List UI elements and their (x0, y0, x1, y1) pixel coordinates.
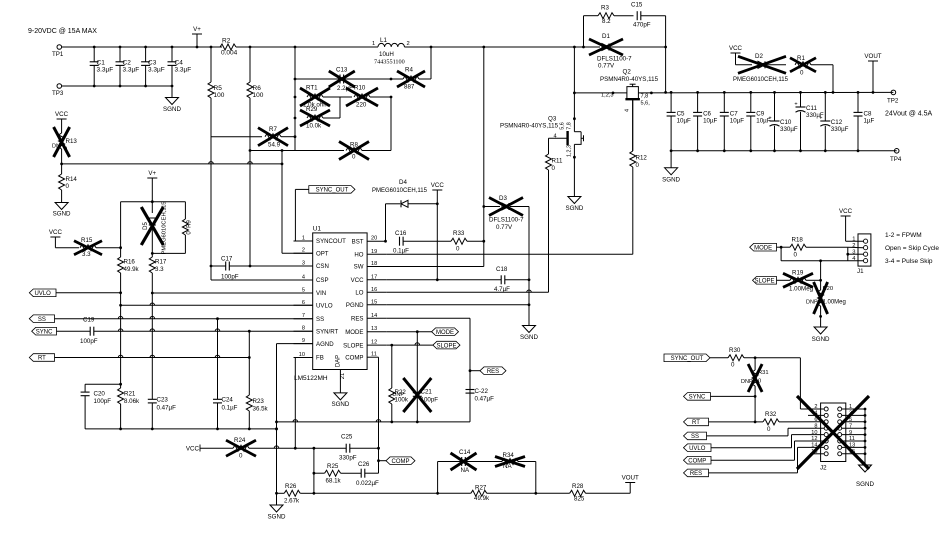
transistor Q2 PSMN4R0-40YS,115 (627, 87, 639, 100)
svg-text:49.9k: 49.9k (474, 495, 490, 502)
svg-text:1µF: 1µF (864, 118, 875, 125)
svg-text:C11: C11 (806, 105, 817, 112)
capacitor C6 (697, 92, 699, 112)
net tag SYNC_OUT at pin1 (294, 189, 296, 241)
wire OPT strap row (62, 163, 282, 165)
wire LO row to Q3 gate (386, 291, 548, 293)
ground J2 (859, 465, 872, 472)
test point TP4 (894, 149, 899, 154)
resistor R16 (120, 202, 122, 257)
wire PGND row (386, 304, 529, 306)
wire RES net (386, 317, 470, 319)
ground below R14 (55, 203, 68, 210)
svg-text:+: + (768, 116, 771, 122)
diode D1 (DNP) (602, 44, 609, 51)
capacitor C12 (824, 92, 826, 120)
svg-text:R2: R2 (222, 38, 231, 45)
svg-text:SYNC: SYNC (36, 329, 53, 335)
svg-text:R28: R28 (572, 483, 584, 490)
test point TP1 (57, 45, 62, 50)
svg-text:SGND: SGND (662, 177, 680, 184)
svg-text:C7: C7 (730, 111, 738, 118)
net tag RT left (29, 354, 54, 362)
net tag SYNC_OUT bottom (664, 354, 710, 362)
svg-text:R24: R24 (234, 437, 246, 444)
svg-text:0: 0 (66, 183, 70, 190)
svg-text:C2: C2 (123, 60, 132, 67)
ground output (670, 151, 672, 168)
resistor R6 (249, 47, 251, 82)
svg-text:C20: C20 (94, 391, 106, 398)
diode D2 (DNP) (758, 61, 765, 68)
svg-text:9-20VDC @ 15A MAX: 9-20VDC @ 15A MAX (28, 28, 97, 35)
svg-text:SLOPE: SLOPE (754, 279, 774, 285)
svg-text:2: 2 (852, 243, 855, 249)
svg-text:D5: D5 (143, 222, 149, 230)
wire J2 pin 13 to ground (842, 446, 865, 448)
svg-text:12: 12 (371, 340, 377, 346)
svg-text:4: 4 (625, 109, 631, 112)
resistor R27 (471, 490, 487, 496)
wire SW riser (483, 47, 485, 267)
svg-text:SYNC_OUT: SYNC_OUT (671, 356, 704, 362)
resistor R5 (210, 47, 212, 82)
diode D5 (DNP) (151, 202, 153, 213)
ground below C4 (171, 86, 173, 98)
svg-text:0.47µF: 0.47µF (475, 396, 495, 403)
svg-text:13: 13 (371, 326, 377, 332)
wire J2 ground column (864, 409, 866, 465)
net tag UVLO left (29, 289, 56, 297)
svg-text:1: 1 (372, 41, 375, 47)
svg-text:0.1µF: 0.1µF (393, 248, 409, 255)
resistor R24 (DNP) (200, 447, 233, 449)
svg-text:R29: R29 (306, 106, 318, 113)
wire J2 pin 3 to ground (842, 414, 865, 416)
svg-text:RT: RT (38, 356, 46, 362)
wire rail R2 to L1 (236, 46, 378, 48)
wire J2 pin4 stub (808, 414, 824, 416)
svg-text:C17: C17 (221, 256, 233, 263)
svg-text:3.3µF: 3.3µF (148, 67, 165, 74)
svg-text:100pF: 100pF (80, 338, 98, 345)
svg-text:17: 17 (371, 274, 377, 280)
wire VCC column (436, 190, 438, 280)
resistor R33 (451, 238, 467, 244)
resistor RT1 (DNP) (307, 94, 323, 100)
capacitor C15 snubber (636, 11, 638, 20)
svg-text:R3: R3 (601, 5, 609, 12)
net tag MODE (432, 328, 459, 336)
svg-text:C16: C16 (395, 230, 407, 237)
wire J2 pin 1 to ground (842, 408, 865, 410)
svg-text:C6: C6 (703, 111, 711, 118)
svg-text:C1: C1 (97, 60, 106, 67)
svg-text:CSP: CSP (316, 277, 329, 284)
svg-text:C9: C9 (756, 111, 764, 118)
wire Q2 to output rail (638, 91, 893, 94)
svg-text:SGND: SGND (856, 481, 874, 488)
svg-text:MODE: MODE (754, 245, 772, 251)
wire UVLO tag to divider (56, 292, 121, 294)
svg-text:SYN/RT: SYN/RT (316, 328, 339, 335)
svg-text:R13: R13 (66, 138, 78, 145)
svg-text:MODE: MODE (436, 330, 454, 336)
ground Q3 source (568, 197, 581, 204)
svg-text:C5: C5 (677, 111, 685, 118)
svg-text:SGND: SGND (812, 336, 830, 343)
svg-text:2.67k: 2.67k (284, 498, 300, 505)
svg-text:R19: R19 (792, 270, 804, 277)
capacitor C2 (119, 47, 121, 62)
ground U1 DAP (334, 393, 347, 400)
svg-text:3.3: 3.3 (155, 266, 164, 273)
svg-text:C24: C24 (222, 397, 234, 404)
svg-text:V+: V+ (193, 26, 201, 33)
svg-text:C25: C25 (341, 434, 353, 441)
svg-text:PSMN4R0-40YS,115: PSMN4R0-40YS,115 (500, 123, 559, 130)
svg-text:NA: NA (461, 467, 470, 474)
resistor R21 (118, 388, 124, 404)
resistor R29 (DNP) (307, 115, 323, 121)
svg-text:SW: SW (354, 264, 364, 271)
svg-text:C15: C15 (631, 2, 643, 9)
svg-text:0.77V: 0.77V (598, 62, 615, 69)
svg-text:R18: R18 (792, 237, 804, 244)
svg-text:+: + (819, 116, 822, 122)
svg-text:PSMN4R0-40YS,115: PSMN4R0-40YS,115 (600, 76, 659, 83)
svg-text:1: 1 (852, 237, 855, 243)
svg-text:10µF: 10µF (730, 118, 744, 125)
svg-text:V+: V+ (148, 170, 156, 177)
svg-text:TP3: TP3 (52, 90, 64, 97)
svg-text:AGND: AGND (316, 341, 334, 348)
pin 17 VCC (367, 279, 386, 281)
svg-text:R34: R34 (503, 452, 515, 459)
wire SW row (367, 266, 484, 268)
svg-text:15: 15 (371, 299, 377, 305)
DNP cross over J2 (797, 396, 869, 469)
svg-text:5,6: 5,6 (560, 122, 566, 130)
capacitor C16 bootstrap (399, 237, 401, 246)
svg-text:L1: L1 (380, 37, 387, 44)
svg-text:Q3: Q3 (548, 116, 557, 123)
wire sense column x295 (294, 47, 296, 151)
wire AGND pin to rail (277, 343, 313, 345)
wire D5 R9 bottom (152, 252, 185, 254)
wire MODE row (416, 330, 419, 333)
svg-text:D1: D1 (602, 33, 610, 40)
wire J1 pin3 stub (848, 253, 864, 255)
resistor R13 (DNP) (59, 133, 65, 149)
svg-text:D2: D2 (755, 53, 763, 60)
svg-text:SLOPE: SLOPE (343, 342, 363, 349)
svg-text:UVLO: UVLO (689, 446, 706, 452)
svg-text:100: 100 (214, 92, 225, 99)
svg-text:COMP: COMP (345, 354, 363, 361)
wire COMP to J2 pin12 (711, 459, 795, 461)
svg-text:TP2: TP2 (887, 98, 899, 105)
pin 2 OPT (294, 252, 313, 254)
svg-text:J1: J1 (857, 268, 864, 275)
net tag RT bottom (684, 418, 709, 426)
svg-text:SS: SS (38, 317, 46, 323)
svg-text:330pF: 330pF (339, 455, 357, 462)
svg-text:CSN: CSN (316, 263, 329, 270)
svg-text:NA: NA (503, 463, 512, 470)
svg-text:R17: R17 (155, 259, 167, 266)
svg-text:J2: J2 (820, 465, 827, 472)
resistor R25 (314, 472, 325, 474)
test point TP2 (891, 90, 896, 95)
svg-text:0: 0 (731, 362, 735, 369)
svg-text:RES: RES (487, 369, 499, 375)
svg-text:RT1: RT1 (306, 85, 318, 92)
svg-text:R14: R14 (66, 176, 78, 183)
resistor R28 (570, 490, 586, 496)
net tag MODE right (750, 243, 777, 251)
svg-text:0: 0 (552, 165, 556, 172)
svg-text:7443551100: 7443551100 (374, 59, 405, 66)
capacitor C18 (500, 275, 502, 284)
svg-text:1.00Meg: 1.00Meg (789, 286, 814, 293)
pin 3 CSN (294, 265, 313, 267)
svg-text:C14: C14 (459, 449, 471, 456)
capacitor C3 (145, 47, 147, 62)
capacitor C13 (DNP) (295, 78, 340, 80)
svg-text:100pF: 100pF (421, 397, 439, 404)
svg-text:Q2: Q2 (623, 69, 632, 76)
svg-text:0.1µF: 0.1µF (222, 405, 238, 412)
node R13 R14 (60, 163, 63, 166)
svg-text:C13: C13 (336, 67, 348, 74)
svg-text:3.3µF: 3.3µF (175, 67, 192, 74)
svg-text:R26: R26 (285, 483, 297, 490)
wire FB branch column (313, 448, 315, 493)
svg-text:SS: SS (691, 434, 699, 440)
capacitor C9 (750, 92, 752, 112)
svg-text:HO: HO (354, 252, 363, 259)
wire UVLO to J2 pin10 (711, 447, 792, 449)
wire OPT column (281, 151, 283, 254)
svg-text:0: 0 (636, 162, 640, 169)
svg-text:U1: U1 (313, 226, 322, 233)
svg-text:R4: R4 (405, 67, 413, 74)
svg-text:0: 0 (239, 453, 243, 460)
svg-text:330µF: 330µF (831, 126, 849, 133)
svg-text:10uH: 10uH (379, 51, 394, 58)
svg-text:PMEG6010CEH,115: PMEG6010CEH,115 (162, 201, 168, 254)
net tag UVLO bottom (684, 444, 712, 452)
resistor R32 (763, 419, 779, 425)
wire RT1 to R29 (339, 97, 341, 118)
svg-text:COMP: COMP (688, 458, 706, 464)
svg-text:2: 2 (814, 404, 817, 410)
wire SW to Q2 (574, 92, 627, 94)
svg-text:SGND: SGND (331, 401, 349, 408)
ground J1 area (814, 327, 827, 334)
node SW column (573, 46, 576, 49)
wire J2 pin 5 to ground (842, 421, 865, 423)
pin 8 SYN/RT (294, 330, 313, 332)
resistor R9 (184, 202, 186, 219)
svg-text:C4: C4 (175, 60, 184, 67)
svg-text:BST: BST (352, 238, 364, 245)
svg-text:SYNC_OUT: SYNC_OUT (316, 188, 349, 194)
wire SLOPE row (390, 344, 393, 347)
resistor R12 gate Q2 (632, 167, 634, 254)
svg-text:TP4: TP4 (890, 156, 902, 163)
svg-text:SYNC: SYNC (689, 395, 706, 401)
svg-text:+: + (794, 102, 797, 108)
svg-text:C10: C10 (780, 119, 792, 126)
connector J1 (858, 234, 871, 266)
svg-text:0: 0 (456, 246, 460, 253)
capacitor C17 (211, 265, 226, 267)
svg-text:VOUT: VOUT (864, 53, 881, 60)
resistor R31 (DNP) (754, 358, 756, 370)
svg-text:0: 0 (767, 426, 771, 433)
pin 6 UVLO (294, 304, 313, 306)
resistor R2 shunt (210, 46, 213, 49)
svg-text:12: 12 (811, 436, 817, 442)
wire SYNC tag to C19 (57, 330, 91, 332)
svg-text:1,2,3: 1,2,3 (567, 145, 573, 157)
pin 13 MODE (367, 331, 386, 333)
svg-text:8: 8 (302, 326, 305, 332)
svg-text:R10: R10 (354, 85, 366, 92)
capacitor C22 (466, 389, 475, 391)
svg-text:R8: R8 (350, 142, 358, 149)
svg-text:0: 0 (758, 379, 761, 385)
svg-text:2: 2 (302, 248, 305, 254)
svg-text:R7: R7 (269, 126, 277, 133)
inductor L1 (378, 43, 404, 47)
svg-text:5: 5 (302, 288, 305, 294)
svg-text:VCC: VCC (186, 446, 200, 453)
svg-text:20: 20 (371, 236, 377, 242)
svg-text:UVLO: UVLO (316, 303, 333, 310)
resistor R10 (DNP) (340, 96, 352, 98)
svg-text:7,8: 7,8 (641, 94, 649, 100)
svg-text:1-2 = FPWM: 1-2 = FPWM (885, 232, 922, 239)
svg-text:8: 8 (814, 423, 817, 429)
pin 19 HO (367, 253, 386, 255)
svg-text:R6: R6 (253, 85, 262, 92)
pin 20 BST (367, 240, 386, 242)
wire UVLO pin row (121, 304, 313, 306)
pin 1 SYNCOUT (294, 240, 313, 242)
svg-text:100: 100 (253, 92, 264, 99)
svg-text:1,2,3: 1,2,3 (601, 93, 613, 99)
svg-text:C26: C26 (358, 461, 370, 468)
wire snubber to output node (665, 16, 667, 93)
net tag SS bottom (684, 432, 707, 440)
svg-text:LO: LO (355, 290, 363, 297)
svg-text:DNP: DNP (392, 392, 404, 398)
pin 10 FB (294, 357, 313, 359)
svg-text:24Vout @ 4.5A: 24Vout @ 4.5A (885, 111, 933, 118)
svg-text:10µF: 10µF (703, 118, 717, 125)
wire HO row to Q2 gate (386, 253, 633, 255)
wire CSP corner (210, 266, 212, 280)
svg-text:SGND: SGND (268, 514, 286, 521)
wire VCC pin row (386, 279, 501, 281)
resistor R34 (DNP) (502, 459, 518, 465)
wire input- rail (62, 85, 172, 87)
capacitor C14 (DNP) (437, 462, 439, 494)
svg-text:PMEG6010CEH,115: PMEG6010CEH,115 (733, 77, 789, 83)
svg-text:SS: SS (316, 316, 324, 323)
resistor R26 (277, 492, 285, 494)
svg-text:1.00Meg: 1.00Meg (823, 300, 846, 306)
wire R18 to J1 pin2 (848, 246, 864, 249)
capacitor C11 (800, 92, 802, 106)
svg-text:VCC: VCC (49, 229, 63, 236)
svg-text:VCC: VCC (55, 111, 69, 118)
svg-text:R9: R9 (187, 220, 193, 228)
svg-text:DAP: DAP (336, 355, 342, 367)
svg-text:RES: RES (351, 316, 364, 323)
resistor R20 (DNP) (820, 261, 822, 290)
svg-text:3: 3 (852, 250, 855, 256)
resistor R7 (DNP) (211, 136, 262, 138)
svg-text:SGND: SGND (520, 334, 538, 341)
svg-text:0.022µF: 0.022µF (356, 480, 379, 487)
net tag RES bottom (684, 469, 709, 477)
svg-text:8.06k: 8.06k (124, 398, 140, 405)
svg-text:R27: R27 (475, 485, 487, 492)
svg-text:FB: FB (316, 355, 324, 362)
transistor Q3 PSMN4R0-40YS,115 (574, 131, 581, 133)
pin 5 VIN (294, 292, 313, 294)
svg-text:3.3: 3.3 (82, 251, 91, 258)
svg-text:VCC: VCC (431, 182, 445, 189)
svg-text:16: 16 (371, 287, 377, 293)
svg-text:0.77V: 0.77V (496, 224, 513, 231)
svg-text:PMEG6010CEH,115: PMEG6010CEH,115 (372, 188, 428, 194)
svg-text:MODE: MODE (345, 329, 363, 336)
svg-text:VCC: VCC (729, 45, 743, 52)
svg-text:UVLO: UVLO (34, 291, 51, 297)
svg-text:OPT: OPT (316, 250, 329, 257)
svg-text:3.3µF: 3.3µF (123, 67, 140, 74)
capacitor C24 (217, 319, 219, 399)
net tag SLOPE right (753, 277, 777, 285)
svg-text:COMP: COMP (392, 459, 410, 465)
svg-text:PGND: PGND (346, 302, 364, 309)
svg-text:0: 0 (800, 70, 804, 77)
svg-text:R25: R25 (327, 463, 339, 470)
svg-text:100pF: 100pF (221, 274, 239, 281)
resistor R8 (DNP) (250, 150, 344, 152)
wire FB pin column (294, 358, 296, 449)
net tag COMP bottom (684, 456, 712, 464)
wire COMP pin column (378, 357, 380, 473)
resistor R17 (151, 253, 153, 257)
wire SW node column (573, 47, 575, 132)
net tag SYNC bottom (684, 393, 711, 401)
svg-text:TP1: TP1 (52, 51, 64, 58)
pin 16 LO (367, 291, 386, 293)
svg-text:SYNCOUT: SYNCOUT (316, 238, 346, 245)
svg-text:54.9: 54.9 (268, 142, 281, 149)
capacitor C26 (360, 469, 362, 478)
svg-text:10µF: 10µF (677, 118, 691, 125)
wire RT row (55, 357, 250, 359)
svg-text:68.1k: 68.1k (326, 478, 342, 485)
svg-text:SLOPE: SLOPE (436, 343, 456, 349)
